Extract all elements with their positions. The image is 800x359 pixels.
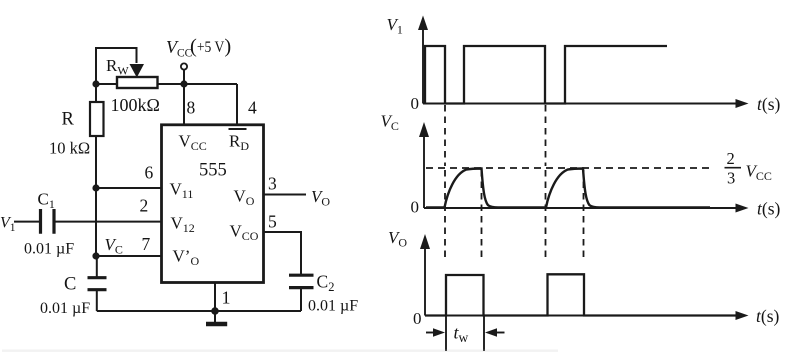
svg-text:VCC: VCC [166, 37, 193, 60]
svg-text:2: 2 [727, 149, 735, 168]
wire: C1 to pin 2 [54, 221, 162, 223]
wire: RW right to VCC node [158, 83, 238, 85]
svg-text:0.01 µF: 0.01 µF [308, 298, 358, 315]
junction: ground node [211, 307, 219, 315]
svg-text:10 kΩ: 10 kΩ [49, 139, 90, 158]
tw arrow right [496, 332, 505, 334]
axis: VO plot t-axis [425, 315, 738, 317]
tw arrow left [426, 332, 434, 334]
wire: pin 3 output [264, 194, 307, 196]
svg-text:C2: C2 [317, 272, 335, 295]
svg-text:VO: VO [388, 228, 407, 250]
junction: node VC pin 7 [92, 252, 99, 259]
svg-text:4: 4 [248, 98, 257, 118]
waveform VO [425, 274, 737, 315]
wire: bottom ground rail [97, 310, 301, 312]
dashed guide line t4 [583, 170, 585, 258]
svg-text:V11: V11 [170, 180, 194, 202]
dashed guide line t1 [444, 105, 446, 258]
svg-text:V1: V1 [0, 215, 16, 235]
dashed level line 2/3 VCC [426, 167, 711, 169]
potentiometer RW wiper arrow [130, 64, 145, 78]
svg-text:8: 8 [187, 98, 196, 118]
wire: RW wiper loop [96, 48, 137, 84]
axis: VC plot y-axis [423, 134, 425, 208]
svg-text:0: 0 [411, 94, 420, 113]
svg-text:0.01 µF: 0.01 µF [40, 300, 90, 317]
svg-text:t(s): t(s) [756, 306, 780, 326]
svg-text:C1: C1 [38, 190, 55, 212]
axis: V1 plot t-axis [423, 103, 738, 105]
scan artifact strip at bottom [2, 350, 558, 352]
svg-text:3: 3 [727, 169, 735, 188]
potentiometer RW body [117, 77, 158, 88]
svg-text:VO: VO [234, 187, 255, 209]
capacitor C2 [289, 275, 314, 287]
svg-text:5: 5 [268, 212, 277, 232]
junction: VCC node [180, 80, 187, 87]
svg-text:t(s): t(s) [757, 199, 781, 219]
svg-text:RW: RW [106, 56, 129, 78]
wire: node VC to capacitor C [96, 256, 98, 277]
svg-text:100kΩ: 100kΩ [111, 95, 160, 115]
junction: RW/R node [92, 80, 99, 87]
dashed guide line t3 [545, 105, 547, 258]
tw extension line right [483, 316, 485, 351]
svg-text:C: C [64, 275, 76, 295]
svg-text:VCC: VCC [746, 162, 772, 184]
dashed guide line t2 [481, 170, 483, 258]
wire: R bottom to node A [95, 136, 97, 188]
wire: node to R top [95, 84, 97, 102]
capacitor C [88, 278, 107, 290]
svg-text:VC: VC [381, 112, 399, 134]
svg-text:V’O: V’O [173, 247, 200, 269]
svg-text:V1: V1 [387, 15, 403, 37]
axis: V1 plot y-axis [422, 27, 424, 104]
wire: pin 7 [96, 255, 162, 257]
svg-text:0: 0 [413, 309, 422, 328]
wire: node A to node VC [95, 188, 97, 256]
svg-text:(+5 V): (+5 V) [190, 36, 231, 58]
wire: pin 1 [214, 283, 216, 312]
ic U1 555 box [162, 125, 264, 283]
svg-text:0.01 µF: 0.01 µF [24, 241, 74, 258]
axis: VO plot y-axis [424, 246, 426, 316]
wire: C2 bottom to rail [300, 288, 302, 311]
svg-text:0: 0 [411, 198, 420, 217]
wire: node to RW left [96, 83, 117, 85]
svg-text:VCC: VCC [179, 132, 207, 154]
svg-text:6: 6 [145, 163, 154, 183]
wire: V1 to C1 [14, 221, 41, 223]
svg-text:R: R [62, 110, 75, 130]
svg-text:t(s): t(s) [757, 94, 781, 114]
svg-text:VCO: VCO [230, 222, 259, 244]
wire: C bottom to rail [96, 290, 98, 311]
wire: pin 6 [96, 187, 162, 189]
waveform V1 [425, 46, 667, 104]
resistor R [90, 102, 104, 136]
wire: pin 4 [236, 84, 238, 125]
tw extension line left [445, 316, 447, 351]
svg-text:3: 3 [268, 174, 277, 194]
svg-text:1: 1 [222, 288, 231, 308]
wire: pin 5 [264, 232, 302, 275]
svg-text:RD: RD [229, 132, 249, 154]
axis: VC plot t-axis [424, 207, 738, 209]
waveform VC [426, 169, 710, 208]
svg-text:VC: VC [105, 235, 123, 257]
capacitor C1 [41, 209, 55, 234]
junction: node A pin 6 [92, 184, 99, 191]
svg-text:VO: VO [311, 187, 330, 209]
VCC terminal [181, 63, 187, 69]
svg-text:7: 7 [142, 234, 151, 254]
svg-text:555: 555 [199, 161, 227, 181]
svg-text:V12: V12 [171, 214, 195, 236]
ground [214, 311, 216, 322]
svg-text:tw: tw [454, 323, 469, 346]
svg-text:2: 2 [140, 196, 149, 216]
wire: pin 8 [183, 84, 185, 125]
